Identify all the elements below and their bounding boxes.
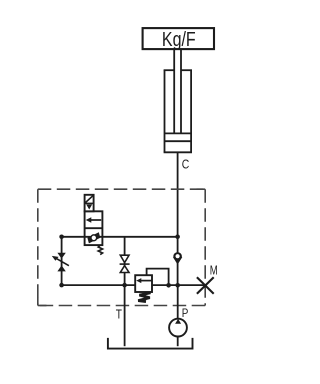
wire upper main line [62, 236, 178, 238]
load box Kg/F [143, 28, 214, 49]
wire P line [177, 285, 179, 319]
node junction A (upper left) [59, 235, 64, 240]
gauge port M (X symbol) [197, 277, 214, 294]
wire T line [124, 285, 126, 346]
svg-text:T: T [116, 306, 122, 321]
wire left branch [61, 237, 63, 285]
solenoid coil [85, 195, 94, 212]
solenoid valve spring [98, 245, 102, 255]
solenoid valve body U1 [85, 211, 103, 245]
tank [108, 338, 193, 349]
node junction F (pilot/lower line) [166, 283, 171, 288]
solenoid valve ball seat [87, 232, 100, 243]
piston [165, 132, 192, 134]
reducing valve arrow [140, 280, 152, 282]
solenoid valve position divider [85, 227, 103, 229]
svg-text:C: C [182, 156, 190, 171]
node junction D (hourglass/lower line) [122, 283, 127, 288]
cylinder rod [173, 49, 175, 134]
reducing valve pilot line [147, 269, 169, 286]
wire hourglass branch [124, 237, 126, 285]
wire check valve branch [177, 237, 179, 286]
node junction B (upper right, C line) [175, 234, 180, 239]
shutoff valve V2 (hourglass) [120, 255, 129, 262]
svg-text:Kg/F: Kg/F [162, 28, 196, 51]
solenoid valve top-cell flow arrow [89, 219, 102, 221]
svg-text:P: P [182, 306, 189, 320]
svg-text:M: M [210, 264, 218, 278]
wire lower main line [62, 284, 206, 286]
node junction C (lower left) [59, 283, 64, 288]
wire C: cylinder to junction [177, 152, 179, 236]
check valve V3 (ball) [173, 252, 182, 261]
reducing valve V4 body [135, 275, 152, 292]
cylinder body [164, 70, 166, 152]
wire pump to tank [177, 337, 179, 347]
manifold boundary (dashed box) [38, 189, 205, 305]
reducing valve spring [138, 293, 150, 302]
throttle valve V1 (adjustable) [57, 253, 65, 259]
node junction E (P line / lower line) [175, 283, 180, 288]
pump U2 [169, 319, 187, 337]
